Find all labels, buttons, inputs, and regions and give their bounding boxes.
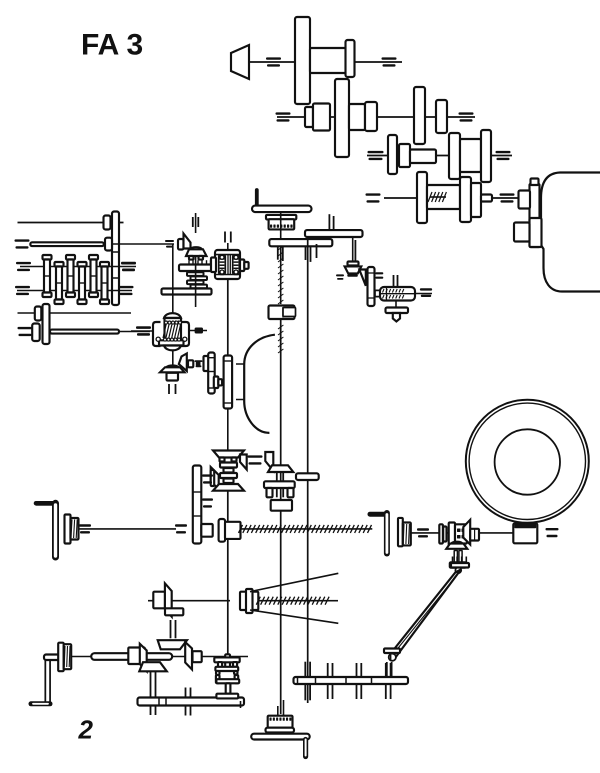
bevel gear G2: [158, 640, 187, 649]
gearbox G2: [193, 651, 202, 662]
bevel flag F5: [265, 452, 273, 471]
shaft F6: [148, 600, 230, 602]
clutch dome top: [164, 313, 181, 318]
rack column L7: [100, 262, 109, 267]
clutch beads top: [165, 321, 168, 324]
shaft A4: [384, 197, 518, 199]
hub W2b flange: [398, 518, 403, 546]
link box F2: [188, 360, 193, 367]
plate P2: [305, 230, 363, 237]
flange F2a: [204, 356, 209, 371]
pins under P2: [305, 247, 307, 260]
hub W2b drum: [403, 523, 411, 546]
hub A4: [471, 183, 481, 217]
clutch dome bottom: [164, 346, 181, 351]
vertical shaft C mid: [227, 279, 229, 356]
shaft break L2b: [165, 240, 174, 242]
bar F5: [264, 481, 295, 488]
hub step A2a: [305, 107, 313, 127]
gear disc A2b: [414, 87, 425, 144]
comb pins 4: [385, 663, 387, 677]
funnel V: [250, 573, 338, 591]
clutch shaft left: [131, 330, 153, 332]
barrel inlet: [375, 293, 382, 295]
hub W3 flange: [58, 643, 64, 672]
bevel gear G1: [139, 662, 167, 671]
clutch body: [165, 318, 182, 341]
cup B2 flange: [266, 728, 295, 733]
gear disc A2a: [335, 79, 349, 157]
pin ticks above motor: [224, 232, 226, 243]
worm shaft line: [79, 528, 177, 530]
shaft L4: [17, 290, 132, 292]
shaft L3: [20, 266, 136, 268]
bevel cone A1: [231, 45, 249, 79]
shaft break A4a: [366, 193, 381, 195]
flange X2a: [439, 524, 443, 543]
hatch W1d: [202, 498, 213, 500]
mount plate: [530, 184, 540, 247]
column cap: [216, 694, 238, 699]
shaft break F2: [195, 360, 203, 362]
shaft F6 right: [327, 600, 338, 602]
arm F5: [296, 473, 319, 480]
gear disc F3: [368, 267, 375, 306]
link pins bottom: [386, 662, 388, 677]
link rod: [391, 570, 461, 657]
shaft break WD: [546, 528, 559, 530]
shaft break A3b: [496, 151, 511, 153]
gear disc A1b: [346, 40, 355, 77]
pins G1 bottom: [150, 671, 152, 697]
bevel foot F6: [165, 608, 183, 615]
housing outline: [541, 173, 600, 292]
plate H2: [162, 289, 212, 295]
pins above barrel: [393, 275, 395, 287]
bevel flag G1: [140, 644, 147, 672]
rack column L4: [66, 255, 75, 260]
vertical shaft C upper: [227, 243, 229, 250]
motor roller left: [219, 255, 226, 275]
platform foot: [303, 740, 308, 757]
vertical shaft V3: [172, 244, 174, 368]
hub F2b: [214, 377, 219, 389]
hub F2: [167, 373, 179, 381]
gear disc L6: [32, 324, 40, 342]
hub A1: [310, 48, 347, 73]
bevel funnel: [345, 266, 362, 273]
shaft break L2a: [15, 239, 30, 241]
pin V1 ticks: [192, 217, 194, 227]
gear disc A3b: [449, 133, 460, 179]
motor stub right: [240, 260, 244, 272]
comb pins 2: [327, 663, 329, 677]
gear disc A4a: [417, 172, 427, 223]
crank W1: [36, 501, 56, 506]
gear disc W2: [219, 519, 226, 542]
shaft W3 thick: [91, 653, 172, 660]
comb pins 3: [356, 663, 358, 677]
svg-text:FA 3: FA 3: [81, 29, 143, 62]
bevel flag F3: [359, 270, 366, 286]
shaft break BA: [420, 288, 432, 290]
drum A4: [427, 185, 460, 209]
barrel: [380, 287, 415, 301]
shaft break A2b: [459, 112, 474, 114]
worm screw: [241, 528, 371, 530]
gear disc A3a: [388, 135, 397, 174]
gearbox X2: [455, 524, 467, 543]
bottom platform: [251, 734, 310, 740]
gear disc L5: [35, 307, 42, 321]
motor frame: [215, 250, 240, 279]
rack column W1: [193, 466, 202, 544]
vertical shaft B1 lower: [280, 319, 282, 714]
shaft A2: [277, 116, 475, 118]
rack column F2: [208, 353, 215, 394]
vertical pin V1: [195, 213, 197, 233]
pins above P2: [328, 214, 330, 230]
sleeve B1: [269, 306, 295, 320]
rack column L2: [43, 255, 52, 260]
shaft break A1a: [266, 57, 281, 59]
bevel gear T4: [268, 465, 293, 472]
gear disc L5b: [43, 304, 50, 344]
feet T1: [189, 256, 194, 260]
carrier bar left: [138, 698, 245, 706]
gear disc A4b: [460, 177, 471, 222]
bevel gear T5: [446, 544, 467, 549]
shaft L1: [18, 222, 124, 224]
shaft break L3a: [16, 262, 31, 264]
shaft break A3a: [368, 151, 384, 153]
column plate1: [214, 657, 239, 662]
hanger pipe: [255, 190, 259, 207]
vertical shaft C lower: [227, 409, 229, 450]
pins above H1: [188, 260, 190, 264]
hub W2: [225, 522, 241, 539]
shaft break A2a: [276, 112, 291, 114]
lamination stack: [187, 272, 204, 276]
bevel gear T1: [186, 249, 207, 256]
bevel flag G2: [185, 642, 192, 670]
motor roller right: [233, 255, 240, 275]
clutch shaft right: [189, 330, 207, 332]
column stem: [226, 683, 231, 693]
fork X2: [454, 551, 457, 563]
wheel drum: [513, 523, 537, 543]
vertical shaft B1 mid: [280, 232, 282, 239]
shaft A1: [249, 61, 402, 63]
vertical shaft V2: [195, 256, 197, 307]
shaft break L4a: [15, 286, 30, 288]
shaft break CL: [136, 326, 151, 328]
barrel foot: [386, 308, 409, 314]
pins G2 top: [170, 620, 172, 638]
shaft break FU: [347, 274, 358, 276]
hub A3a: [399, 144, 410, 167]
feet T3: [220, 458, 225, 462]
clutch bracket left: [153, 322, 161, 346]
fork feet F5: [267, 488, 273, 497]
barrel hanger: [395, 301, 397, 308]
hub A2b: [313, 104, 330, 131]
pivot X2: [455, 567, 461, 573]
motor flange left: [211, 258, 216, 273]
shaft L6: [50, 330, 119, 334]
crank W3 foot: [31, 701, 50, 706]
vertical shaft B1 screw: [280, 248, 282, 304]
gearbox G1: [128, 648, 145, 665]
column post: [225, 654, 230, 669]
cross shaft: [411, 532, 514, 534]
shaft break W1a: [79, 524, 91, 526]
fork F5: [276, 472, 278, 497]
shaft W3: [71, 656, 91, 658]
hub bar H1: [179, 265, 212, 272]
shaft break L4b: [119, 286, 134, 288]
pins bar left: [185, 688, 187, 698]
shaft break L6b: [136, 326, 151, 328]
cross middle: [220, 463, 237, 468]
key block F2: [196, 361, 201, 367]
bevel flag F4 right: [240, 455, 247, 470]
vertical shaft C lowest: [227, 491, 229, 656]
pins under P1: [277, 247, 279, 260]
comb bar right: [294, 677, 409, 684]
gear disc A1a: [295, 17, 310, 104]
gear disc L1: [104, 216, 111, 230]
stub X2: [470, 529, 479, 541]
column ears: [216, 675, 220, 683]
funnel bar: [348, 262, 359, 266]
rack column L3: [55, 262, 64, 267]
clutch plate: [159, 340, 184, 345]
shaft break A1b: [382, 57, 397, 59]
shaft break F3r: [375, 272, 383, 274]
sleeve W2: [201, 524, 212, 537]
svg-text:2: 2: [78, 715, 94, 745]
bevel flag F1: [178, 239, 184, 250]
column plate2: [215, 667, 238, 671]
shaft break L3b: [121, 262, 136, 265]
cup F5: [271, 500, 292, 511]
hub A3b: [460, 139, 481, 172]
mount plate lower: [530, 218, 542, 247]
wheel rim: [466, 400, 589, 523]
bell disc: [224, 356, 233, 409]
clutch beads bottom: [164, 338, 167, 341]
bevel gear T2: [160, 367, 185, 372]
vertical pin D: [352, 237, 354, 262]
gear disc A3c: [481, 130, 491, 182]
motor top bar: [215, 254, 240, 256]
cup C1: [266, 215, 296, 220]
bevel gear T3 bottom: [213, 484, 244, 491]
link top bar: [451, 563, 469, 568]
shaft break W1b: [175, 524, 187, 526]
link pivot bottom: [389, 654, 396, 661]
shaft break A4b: [500, 193, 515, 195]
bevel wedge X2c: [463, 520, 470, 545]
barrel stub: [415, 293, 432, 295]
rack column L6: [89, 255, 98, 260]
shaft B1 fork: [277, 706, 279, 716]
barrel foot tip: [393, 313, 400, 322]
pins F2: [168, 384, 170, 394]
funnel nut F6: [240, 592, 258, 610]
motor shaft pins: [227, 255, 229, 275]
rack column L5: [78, 262, 87, 267]
worm screw F6: [258, 600, 327, 602]
crank W3 arm: [44, 660, 51, 703]
bevel flag F4 left: [211, 467, 219, 489]
shaft L2: [30, 242, 104, 246]
shaft W3 right: [172, 656, 248, 658]
comb pins 1: [304, 662, 306, 677]
wheel hub: [495, 429, 560, 494]
cup B2: [268, 716, 293, 728]
bevel gear T3 top: [213, 451, 244, 458]
rack column L1: [112, 212, 119, 306]
sleeve A3: [410, 150, 436, 164]
hub W3 drum: [64, 644, 71, 669]
plate P1: [269, 239, 332, 246]
hub W1 flange: [65, 515, 71, 544]
vertical shaft B2: [307, 237, 309, 703]
link ticks top: [452, 557, 454, 564]
shaft break X1: [248, 455, 263, 457]
bell horn: [236, 364, 244, 400]
crank W2: [370, 512, 386, 517]
bevel flag F2: [179, 354, 187, 372]
hub W1 drum: [71, 518, 79, 540]
hatch W1c: [202, 474, 213, 476]
plate cap: [531, 179, 539, 186]
clutch bracket right: [182, 322, 190, 346]
shaft L5: [18, 312, 132, 314]
mount box lower: [514, 223, 530, 242]
flange A2: [365, 102, 377, 131]
fork bar X2: [450, 562, 466, 567]
stub A4: [481, 195, 492, 202]
mount box upper: [519, 191, 531, 209]
flange X2b: [449, 523, 455, 546]
hub A2c: [349, 104, 365, 130]
crank W3 stub: [44, 655, 61, 661]
shaft break L6a: [18, 327, 33, 329]
shaft A3: [367, 155, 512, 157]
link clevis bottom: [384, 649, 400, 654]
vertical shaft B1 upper: [280, 212, 282, 232]
bevel flag F6: [165, 583, 172, 616]
gear disc A2c: [436, 100, 447, 133]
key block: [195, 328, 203, 334]
hub L2: [105, 238, 112, 251]
bevel key F6: [153, 592, 165, 609]
shaft break W2a: [417, 528, 429, 530]
